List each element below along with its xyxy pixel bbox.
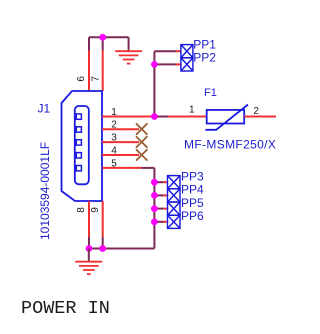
svg-text:PP3: PP3	[181, 169, 204, 183]
svg-text:PP4: PP4	[181, 183, 204, 197]
wire: PP3 stub	[154, 181, 167, 183]
svg-text:PP1: PP1	[193, 37, 216, 51]
svg-text:9: 9	[90, 207, 101, 213]
test point PP1	[181, 37, 216, 58]
svg-text:10103594-0001LF: 10103594-0001LF	[38, 142, 52, 240]
test point PP6	[168, 209, 205, 228]
node: junction dot PP5	[151, 205, 158, 212]
svg-text:2: 2	[253, 106, 259, 117]
ground symbol (top)	[115, 37, 142, 63]
fuse F1	[204, 87, 248, 130]
node: junction dot PP4	[151, 192, 158, 199]
svg-text:6: 6	[76, 76, 87, 82]
wire: pin 5	[102, 167, 154, 169]
svg-text:MF-MSMF250/X: MF-MSMF250/X	[184, 137, 276, 151]
wire: pin 9 vertical	[102, 201, 104, 249]
wire: PP5 stub	[154, 208, 167, 210]
node: junction dot pin8/ground	[86, 245, 93, 252]
node: junction dot PP3	[151, 179, 158, 186]
wire: PP1 stub	[154, 50, 181, 52]
no-connect X pin 4	[136, 149, 147, 160]
svg-text:PP5: PP5	[181, 196, 204, 210]
svg-text:7: 7	[91, 76, 102, 82]
wire: pin 4	[102, 154, 139, 156]
test point PP3	[168, 169, 205, 188]
node: junction dot pin9	[99, 245, 106, 252]
wire: pin 1 to fuse	[102, 116, 207, 118]
svg-text:8: 8	[76, 207, 87, 213]
wire: PP2 stub	[154, 63, 181, 65]
wire: pin 2	[102, 128, 139, 130]
wire: top horizontal net to ground	[89, 36, 129, 38]
wire: pin 3	[102, 141, 139, 143]
wire: pin 8 vertical	[88, 201, 90, 249]
wire: pin 7 vertical	[102, 37, 104, 91]
svg-text:F1: F1	[204, 87, 217, 99]
wire: pin 6 vertical	[88, 37, 90, 91]
ground symbol (bottom)	[75, 249, 102, 275]
node: junction dot pin1/PP net	[151, 113, 158, 120]
node: junction dot PP6	[151, 218, 158, 225]
test point PP4	[168, 183, 205, 202]
node: junction dot pin7/top net	[99, 34, 106, 41]
wire: vertical from PP1/PP2 to pin1 net	[153, 51, 155, 116]
wire: bottom horizontal net	[89, 248, 154, 250]
wire: PP4 stub	[154, 194, 167, 196]
wire: fuse output to edge	[244, 116, 276, 118]
svg-text:POWER IN: POWER IN	[21, 298, 110, 319]
svg-text:J1: J1	[38, 102, 51, 116]
wire: vertical PP3-PP6 net	[153, 168, 155, 249]
no-connect X pin 3	[136, 136, 147, 147]
test point PP5	[168, 196, 205, 215]
svg-text:1: 1	[189, 105, 195, 116]
no-connect X pin 2	[136, 123, 147, 134]
connector J1 inner shell	[75, 106, 89, 184]
node: junction dot PP2	[151, 61, 158, 68]
wire: PP6 stub	[154, 221, 167, 223]
connector J1 contact squares	[76, 114, 81, 171]
test point PP2	[181, 51, 216, 72]
svg-text:PP6: PP6	[181, 209, 204, 223]
connector J1 outline	[62, 91, 103, 201]
svg-text:PP2: PP2	[193, 51, 216, 65]
